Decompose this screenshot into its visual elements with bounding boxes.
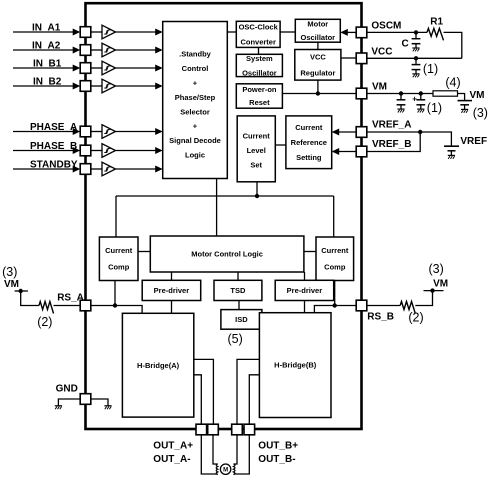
svg-text:Control: Control [182, 64, 209, 73]
wire VM right down [415, 291, 432, 306]
svg-text:Pre-driver: Pre-driver [287, 286, 323, 295]
wire HB-A to OUT_A- stub [194, 359, 214, 424]
svg-text:Current: Current [321, 246, 349, 255]
svg-text:VREF_A: VREF_A [372, 120, 411, 131]
junction VM node2 [419, 91, 423, 95]
svg-text:Motor: Motor [307, 20, 328, 29]
wire PHASE_A pin to buffer [91, 131, 102, 133]
wire STANDBY pin to buffer [91, 168, 102, 170]
wire IN_B2 pin to buffer [91, 85, 102, 87]
svg-text:Power-on: Power-on [242, 85, 277, 94]
wire TSD to ISD [238, 301, 240, 310]
wire CLS down to bus [256, 182, 258, 196]
svg-text:Oscillator: Oscillator [300, 33, 335, 42]
svg-text:OUT_B+: OUT_B+ [258, 440, 298, 451]
arrowhead IN_A2 into logic [155, 47, 163, 54]
svg-text:H-Bridge(A): H-Bridge(A) [137, 361, 180, 370]
chip outline [86, 3, 362, 429]
wire resistor to RS_B pin [367, 305, 400, 307]
arrowhead IN_A1 into pin [73, 29, 81, 36]
wire RS_A pin to HB-A [91, 306, 142, 314]
block H-Bridge(B) [259, 313, 331, 418]
pin VM [356, 88, 367, 99]
wire Motor Osc to VCC Reg [317, 42, 319, 49]
svg-text:Converter: Converter [240, 38, 276, 47]
pin OUT_B- [244, 424, 255, 435]
wire STANDBY input wire [13, 168, 73, 170]
svg-text:H-Bridge(B): H-Bridge(B) [274, 361, 317, 370]
wire PHASE_A buffer to logic [116, 131, 157, 133]
svg-text:Regulator: Regulator [300, 68, 335, 77]
svg-text:OUT_B-: OUT_B- [258, 454, 295, 465]
block OSC-Clock Converter [236, 21, 280, 47]
wire HB-A to OUT_A+ stub [194, 375, 202, 424]
wire R1 to loop [444, 32, 462, 58]
wire PHASE_B buffer to logic [116, 150, 157, 152]
svg-text:VCC: VCC [310, 52, 326, 61]
wire GND left [58, 399, 80, 406]
wire logic to OSC-Clock [227, 31, 236, 33]
wire CompR down [334, 281, 336, 306]
svg-text:+: + [193, 79, 198, 88]
svg-text:Level: Level [247, 146, 266, 155]
wire HB-B to OUT_B+ stub [237, 359, 259, 424]
wire MCL to Pre-driver right [304, 272, 306, 280]
wire IN_B2 input wire [13, 85, 73, 87]
ground right [104, 406, 111, 409]
svg-text:Oscillator: Oscillator [242, 68, 277, 77]
pin IN_B2 [80, 81, 91, 92]
wire resistor to RS_A pin [54, 305, 81, 307]
wire OUT_A+ to motor [201, 435, 217, 474]
svg-text:M: M [223, 468, 228, 474]
svg-text:Current: Current [243, 131, 271, 140]
wire VM left bar [15, 290, 28, 292]
wire PHASE_B pin to buffer [91, 150, 102, 152]
svg-text:VM: VM [372, 82, 387, 93]
wire VCC Reg to VCC pin [341, 57, 356, 59]
wire bus to Comp right [333, 196, 335, 237]
junction VM node1 [399, 91, 403, 95]
svg-text:Reset: Reset [249, 98, 270, 107]
wire VM right bar [424, 290, 444, 292]
wire Pre-driver left to HB-A [171, 301, 173, 314]
arrowhead STANDBY into pin [73, 166, 81, 173]
svg-text:Phase/Step: Phase/Step [175, 93, 216, 102]
svg-text:(3): (3) [429, 262, 444, 276]
svg-text:Current: Current [295, 123, 323, 132]
svg-text:OUT_A-: OUT_A- [153, 454, 190, 465]
svg-text:TSD: TSD [230, 286, 246, 295]
junction RS_A node [113, 303, 117, 307]
block VCC Regulator [295, 50, 341, 81]
wire VREF_B pin to CRS [334, 151, 357, 153]
block ISD [221, 310, 262, 330]
wire bead to VM cap [458, 94, 465, 101]
resistor R1 [427, 28, 444, 40]
motor M [220, 464, 230, 474]
svg-text:(3): (3) [473, 106, 488, 120]
schmitt buffer PHASE_B [102, 144, 116, 158]
pin VREF_A [356, 127, 367, 138]
block Motor Oscillator [295, 19, 340, 42]
svg-text:Setting: Setting [296, 153, 322, 162]
wire OUT_B+ to motor [234, 435, 237, 464]
svg-text:Comp: Comp [108, 263, 130, 272]
pin OUT_A+ [196, 424, 207, 435]
svg-text:Signal Decode: Signal Decode [169, 136, 221, 145]
pin IN_A1 [80, 27, 91, 38]
wire IN_A1 input wire [13, 31, 73, 33]
pin GND [80, 394, 91, 405]
wire MCL to CompR [304, 251, 316, 253]
svg-text:+: + [412, 95, 417, 104]
svg-text:OUT_A+: OUT_A+ [153, 440, 193, 451]
schmitt buffer STANDBY [102, 162, 116, 176]
wire OSCM pin to Motor Osc [342, 31, 356, 33]
block Pre-driver left [142, 280, 201, 300]
svg-text:+: + [193, 122, 198, 131]
svg-text:GND: GND [56, 384, 78, 395]
wire IN_A1 pin to buffer [91, 31, 102, 33]
block Motor Control Logic [150, 236, 304, 272]
arrowhead IN_B2 into pin [73, 83, 81, 90]
wire VREF_A pin to CRS [334, 131, 357, 133]
motor coil A [216, 464, 218, 475]
resistor RS_A resistor [39, 302, 54, 314]
svg-text:System: System [246, 54, 273, 63]
svg-text:OSCM: OSCM [371, 21, 401, 32]
svg-text:Logic: Logic [185, 151, 205, 160]
junction VREF node [418, 130, 422, 134]
arrowhead into CRS A [332, 129, 340, 136]
wire MCL to Pre-driver left [171, 272, 173, 280]
pin VCC [356, 53, 367, 64]
svg-text:Pre-driver: Pre-driver [154, 286, 190, 295]
svg-text:Comp: Comp [324, 263, 346, 272]
wire VCC external [367, 57, 462, 59]
svg-text:Motor Control Logic: Motor Control Logic [191, 250, 263, 259]
wire CompL to MCL [138, 251, 150, 253]
block System Oscillator [236, 54, 282, 78]
arrowhead PHASE_B into logic [155, 147, 163, 154]
resistor RS_B resistor [400, 302, 415, 314]
svg-text:(5): (5) [228, 332, 243, 346]
svg-text:VM: VM [470, 90, 485, 101]
svg-text:PHASE_A: PHASE_A [30, 122, 77, 133]
svg-text:PHASE_B: PHASE_B [30, 141, 77, 152]
wire bus [116, 195, 334, 197]
pin IN_B1 [80, 63, 91, 74]
arrowhead PHASE_A into pin [73, 128, 81, 135]
pin PHASE_B [80, 145, 91, 156]
svg-text:Current: Current [105, 246, 133, 255]
svg-text:IN_A1: IN_A1 [32, 23, 61, 34]
wire IN_A2 input wire [13, 49, 73, 51]
junction RS_B node [333, 303, 337, 307]
wire bus to Comp left [115, 196, 117, 237]
wire CompL down [114, 281, 116, 306]
arrowhead into Motor Osc [340, 29, 348, 36]
motor coil B [233, 464, 235, 475]
svg-text:OSC-Clock: OSC-Clock [239, 23, 279, 32]
junction VM left node [19, 289, 23, 293]
wire VM left down [21, 291, 39, 306]
svg-text:(2): (2) [408, 310, 423, 324]
pin STANDBY [80, 164, 91, 175]
arrowhead PHASE_A into logic [155, 128, 163, 135]
svg-text:VCC: VCC [371, 47, 392, 58]
svg-text:(1): (1) [427, 101, 442, 115]
svg-text:IN_A2: IN_A2 [32, 41, 61, 52]
wire CLS to CRS [275, 144, 286, 146]
arrowhead IN_A1 into logic [155, 29, 163, 36]
pin IN_A2 [80, 45, 91, 56]
junction VM right node [430, 288, 434, 292]
wire PHASE_B input wire [13, 150, 73, 152]
svg-text:VREF: VREF [460, 136, 487, 147]
svg-text:(1): (1) [423, 62, 438, 76]
schmitt buffer IN_A1 [102, 25, 116, 39]
schmitt buffer IN_A2 [102, 43, 116, 57]
svg-text:RS_A: RS_A [57, 293, 84, 304]
pin VREF_B [356, 146, 367, 157]
svg-text:VREF_B: VREF_B [372, 139, 411, 150]
pin PHASE_A [80, 126, 91, 137]
capacitor VREF [444, 146, 459, 159]
schmitt buffer PHASE_A [102, 125, 116, 139]
pin OUT_B+ [232, 424, 243, 435]
wire IN_B1 pin to buffer [91, 67, 102, 69]
svg-text:C: C [402, 39, 409, 50]
svg-text:Reference: Reference [291, 138, 327, 147]
block Current Reference Setting [286, 116, 332, 169]
pin RS_A [80, 300, 91, 311]
wire VM external [367, 93, 433, 95]
wire logic to MCL [216, 179, 218, 237]
svg-text:Selector: Selector [180, 107, 210, 116]
block Power-on Reset [236, 84, 282, 108]
svg-text:STANDBY: STANDBY [30, 160, 78, 171]
schmitt buffer IN_B1 [102, 61, 116, 75]
arrowhead IN_B2 into logic [155, 83, 163, 90]
arrowhead IN_B1 into pin [73, 65, 81, 72]
arrowhead PHASE_B into pin [73, 147, 81, 154]
svg-text:VM: VM [4, 279, 19, 290]
capacitor C1 on VCC [412, 58, 421, 77]
wire OSC-Clock to System Osc [258, 47, 260, 54]
block H-Bridge(A) [122, 313, 193, 417]
svg-text:.Standby: .Standby [179, 50, 211, 59]
svg-text:(2): (2) [37, 315, 52, 329]
wire IN_B2 buffer to logic [116, 85, 157, 87]
wire VREF_B external [367, 132, 420, 152]
schmitt buffer IN_B2 [102, 79, 116, 93]
junction VCC node [414, 56, 418, 60]
arrowhead IN_A2 into pin [73, 47, 81, 54]
pin RS_B [356, 300, 367, 311]
wire STANDBY buffer to logic [116, 168, 157, 170]
wire OSCM external [367, 31, 427, 33]
block Current Comp right [316, 237, 354, 281]
wire OSC-Clock to Motor Osc [280, 31, 295, 33]
wire MCL to TSD [237, 272, 239, 280]
wire OUT_A- to motor [213, 435, 218, 464]
wire RS_B pin to HB-B [314, 306, 356, 313]
ferrite bead (4) [433, 91, 458, 96]
wire POR to VM pin [282, 93, 356, 95]
svg-text:IN_B2: IN_B2 [33, 77, 62, 88]
capacitor VM bulk (3) [458, 101, 473, 113]
block TSD [214, 280, 262, 300]
wire PHASE_A input wire [13, 131, 73, 133]
block Pre-driver right [275, 280, 334, 300]
capacitor C VM2 electrolytic [416, 94, 425, 113]
svg-text:(3): (3) [2, 265, 17, 279]
wire OUT_B- to motor [234, 435, 250, 474]
wire IN_B1 buffer to logic [116, 67, 157, 69]
junction OSCM node [414, 30, 418, 34]
arrowhead into CRS B [332, 148, 340, 155]
ground left [55, 406, 62, 409]
block Current Level Set [237, 116, 275, 182]
junction VCCreg-POR [316, 91, 320, 95]
wire IN_A2 pin to buffer [91, 49, 102, 51]
wire IN_B1 input wire [13, 67, 73, 69]
svg-text:IN_B1: IN_B1 [33, 59, 62, 70]
svg-text:VM: VM [433, 279, 448, 290]
block Current Comp left [99, 237, 138, 281]
arrowhead IN_B1 into logic [155, 65, 163, 72]
svg-text:Set: Set [250, 161, 262, 170]
wire IN_A1 buffer to logic [116, 31, 157, 33]
svg-text:RS_B: RS_B [367, 312, 394, 323]
wire GND right [91, 399, 108, 406]
pin OSCM [356, 27, 367, 38]
wire IN_A2 buffer to logic [116, 49, 157, 51]
wire HB-B to OUT_B- stub [249, 375, 259, 424]
capacitor C VM1 [397, 94, 406, 113]
block Standby Control / Phase Step Selector / Signal Decode Logic [163, 22, 228, 179]
wire Pre-driver right to HB-B [304, 301, 306, 313]
pin OUT_A- [208, 424, 219, 435]
arrowhead STANDBY into logic [155, 166, 163, 173]
svg-text:R1: R1 [430, 17, 443, 28]
svg-text:ISD: ISD [235, 315, 248, 324]
junction bus-CLS [255, 194, 259, 198]
wire VREF_A external [367, 132, 452, 146]
svg-text:(4): (4) [445, 75, 460, 89]
wire VCC Reg down [317, 80, 319, 93]
capacitor C [412, 32, 421, 51]
